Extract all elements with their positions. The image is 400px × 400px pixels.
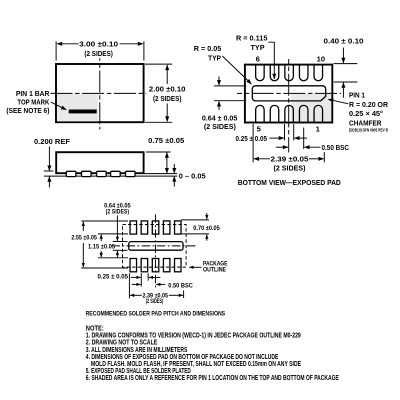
solder pad dimension 2.39 +/-0.05 (2 SIDES) [130,294,142,296]
dimension 2.39 +/-0.05 (2 SIDES) arrows and text [254,158,270,160]
svg-text:TYP: TYP [208,54,221,63]
dimension 0.64 +/-0.05 (2 SIDES): extension lines left of bottom view [214,85,246,87]
svg-text:0 – 0.05: 0 – 0.05 [179,171,207,180]
top view vertical centerline [99,58,101,129]
dimension 1.15 line with arrows [100,235,102,241]
svg-text:(SEE NOTE 6): (SEE NOTE 6) [6,106,49,115]
leader arrow to pad chamfer corner [328,99,348,104]
solder pad 0.64 extension ticks [113,241,128,243]
svg-text:(DDB10) DFN 0905 REV B: (DDB10) DFN 0905 REV B [349,128,388,133]
svg-text:2.00 ±0.10: 2.00 ±0.10 [149,84,186,93]
svg-text:0.200 REF: 0.200 REF [34,137,70,146]
dimension 0.200 REF ticks and arrows [44,170,54,172]
dimension 0.75 extension line and arrows [146,151,171,153]
side view body-bottom extension line to right [144,173,177,175]
top view shaded pin-1 area (see note 6) [57,93,98,121]
top view horizontal centerline [51,92,147,94]
solder pad dimension 0.50 BSC arrows and text [132,283,141,285]
dimension 2.00 +/-0.10 (2 SIDES): extension lines [145,63,172,65]
bottom view lower extension lines [252,124,254,162]
side view: package body [56,152,143,173]
dimension 0.50 BSC arrows and text [276,146,288,148]
svg-text:0.70 ±0.05: 0.70 ±0.05 [193,225,220,232]
svg-text:RECOMMENDED SOLDER PAD PITCH A: RECOMMENDED SOLDER PAD PITCH AND DIMENSI… [86,310,226,317]
package outline (dashed) [123,225,187,268]
dimension 0.40 ticks and arrows [334,63,358,65]
svg-text:(2 SIDES): (2 SIDES) [84,49,113,58]
bottom view exposed pad with pin-1 chamfer [252,86,325,101]
side view leads (5) [66,171,76,176]
svg-text:2.39 ±0.05: 2.39 ±0.05 [271,155,310,164]
solder pad 0.64 leader arrows [116,216,118,241]
side view seating plane line [44,175,177,177]
pin 1 bar top mark [69,110,97,114]
solder pad lower extension lines [128,273,130,298]
svg-text:6: 6 [256,54,260,63]
top solder pads (5) [130,221,137,234]
top view: package body outline [56,64,144,122]
svg-text:CHAMFER: CHAMFER [349,119,382,128]
svg-text:OUTLINE: OUTLINE [203,267,226,274]
solder pad layout vertical centerline [154,214,156,288]
svg-text:(2 SIDES): (2 SIDES) [146,298,164,305]
dimension 3.00 +/-0.10 (2 SIDES): extension lines [55,41,57,60]
bottom view package outline [245,65,332,123]
svg-text:0.75 ±0.05: 0.75 ±0.05 [148,136,185,145]
dimension 0.70 arrows [206,213,208,219]
dimension 1.15 +/-0.05: extension lines [98,233,128,235]
svg-text:6. SHADED AREA IS ONLY A REFER: 6. SHADED AREA IS ONLY A REFERENCE FOR P… [86,373,339,382]
svg-text:2.55 ±0.05: 2.55 ±0.05 [71,234,97,241]
svg-text:0.25 × 45°: 0.25 × 45° [349,109,383,118]
svg-text:0.25 ± 0.05: 0.25 ± 0.05 [236,134,268,143]
bottom solder pads (5) [130,259,137,272]
dimension 2.55 line with arrows [82,222,84,231]
svg-text:TYP: TYP [251,43,265,52]
bottom view bottom pins 5-1 (arch shapes) [256,105,265,121]
svg-text:0.25 ± 0.05: 0.25 ± 0.05 [98,274,129,281]
dimension 2.55 +/-0.05: extension lines [81,220,128,222]
svg-text:0.50 BSC: 0.50 BSC [168,283,193,290]
svg-text:BOTTOM VIEW—EXPOSED PAD: BOTTOM VIEW—EXPOSED PAD [238,178,342,187]
svg-text:R = 0.20 OR: R = 0.20 OR [349,100,388,109]
bottom view top pins 6-10 (U shapes) [256,65,265,80]
dimension 2.00 line with arrows [166,65,168,84]
svg-text:(2 SIDES): (2 SIDES) [274,163,306,172]
middle exposed pad solder pad [129,242,183,251]
svg-text:3.00 ±0.10: 3.00 ±0.10 [79,40,118,49]
dimension 0 - 0.05 arrows and text [173,164,175,173]
leader arrow to pin 1 bar [51,102,66,110]
svg-text:R = 0.115: R = 0.115 [236,34,268,43]
bottom view vertical centerline [288,59,290,153]
svg-text:R = 0.05: R = 0.05 [194,44,222,53]
svg-text:PIN 1: PIN 1 [349,90,366,99]
svg-text:(2 SIDES): (2 SIDES) [204,122,236,131]
svg-text:(2 SIDES): (2 SIDES) [153,94,182,103]
bottom view shaded pin-1 area [291,94,331,122]
dimension 0.70 +/-0.05: extension lines right [181,219,209,221]
dimension 3.00 line with arrows [57,43,79,45]
dimension 0.64 arrows [218,77,220,86]
solder pad layout horizontal centerline [112,245,197,247]
bottom view horizontal centerline [237,92,341,94]
svg-text:10: 10 [317,54,325,63]
svg-text:1.15 ±0.05: 1.15 ±0.05 [88,243,115,250]
svg-text:0.50 BSC: 0.50 BSC [322,143,350,152]
svg-text:0.40 ± 0.10: 0.40 ± 0.10 [324,37,364,46]
svg-text:(2 SIDES): (2 SIDES) [106,208,130,215]
